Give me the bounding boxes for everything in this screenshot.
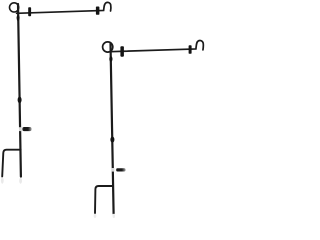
stand 1 rubber stopper	[22, 127, 31, 131]
stand 1 vertical pole	[18, 4, 21, 177]
stand 2 vertical pole	[111, 43, 114, 214]
stand 1 upper ferrule	[17, 15, 20, 21]
stand 2 rubber stopper	[116, 168, 126, 171]
stand 1 top loop	[10, 3, 19, 12]
stand 2 top loop	[103, 42, 113, 52]
stand 2 upper ferrule	[109, 56, 112, 62]
stand 2 tip shadow right	[113, 214, 116, 218]
stand 1 right flag clip	[96, 7, 100, 15]
stand 2 right flag clip	[189, 45, 192, 54]
stand 2 middle joint ferrule	[110, 137, 114, 143]
stand 1 middle joint ferrule	[18, 97, 22, 104]
stand 1 horizontal arm with end hook	[17, 2, 111, 13]
stand 2 ground fork	[95, 186, 113, 213]
stand 2 left flag clip	[120, 46, 124, 57]
stand 1 tip shadow right	[19, 178, 22, 184]
stand 1 left flag clip	[28, 7, 31, 16]
stand 1 tip shadow left	[1, 177, 4, 183]
stand 1 pole collar	[19, 127, 22, 131]
stand 2 tip shadow left	[94, 214, 97, 218]
stand 2 horizontal arm with end hook	[110, 40, 203, 51]
stand 2 pole collar	[112, 168, 115, 172]
stand 1 ground fork	[2, 150, 21, 177]
